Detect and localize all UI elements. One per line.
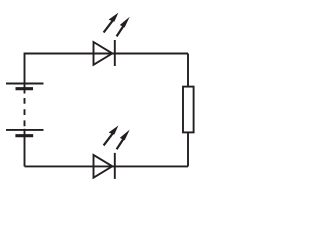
LED D1 cathode bar bbox=[114, 40, 116, 66]
battery B1 cell1 long plate (+) bbox=[6, 83, 44, 85]
wire top bbox=[25, 53, 189, 55]
LED D1 arrow 1 head bbox=[109, 13, 119, 22]
LED D2 triangle bbox=[94, 155, 113, 178]
wire left lower (battery negative lead) bbox=[24, 129, 26, 167]
battery B1 cell1 short plate (-) bbox=[16, 87, 34, 90]
dashed link between battery cells bbox=[24, 98, 26, 126]
resistor R1 body bbox=[183, 87, 194, 133]
wire left upper (battery positive lead) bbox=[24, 53, 26, 94]
wire right (through resistor position) bbox=[187, 54, 189, 167]
wire bottom bbox=[25, 165, 189, 167]
LED D2 arrow 1 head bbox=[109, 126, 119, 135]
LED D1 arrow 2 head bbox=[120, 17, 130, 28]
LED D2 cathode bar bbox=[114, 153, 116, 179]
LED D1 arrow 1 shaft bbox=[104, 20, 113, 32]
LED D1 arrow 2 shaft bbox=[117, 26, 124, 36]
battery B1 cell2 long plate (+) bbox=[6, 129, 44, 131]
LED D2 arrow 2 head bbox=[120, 130, 130, 141]
LED D1 triangle bbox=[94, 42, 113, 65]
battery B1 cell2 short plate (-) bbox=[15, 134, 33, 137]
LED D2 arrow 1 shaft bbox=[104, 133, 113, 145]
LED D2 arrow 2 shaft bbox=[117, 139, 124, 149]
